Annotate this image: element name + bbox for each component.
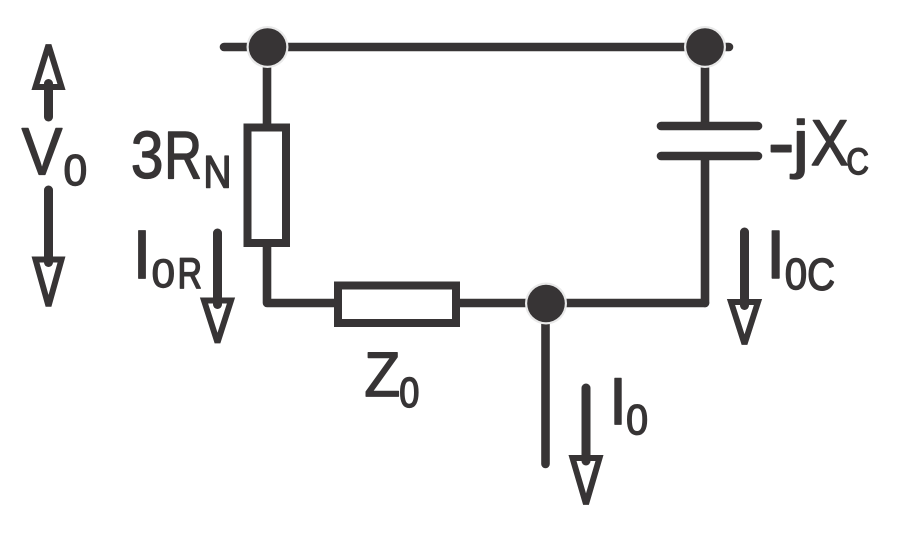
label jXC xyxy=(771,119,867,179)
resistor 3RN body xyxy=(248,128,287,244)
arrow I0 down (head) xyxy=(573,458,600,504)
label Z0 xyxy=(366,353,418,408)
wire right vertical lower (corner up to capacitor) xyxy=(701,158,710,303)
arrow V0 up (shaft) xyxy=(44,84,53,118)
capacitor C top plate xyxy=(661,122,758,131)
arrow I0C down (shaft) xyxy=(740,232,749,306)
arrow V0 down (shaft) xyxy=(44,190,53,263)
wire stub below middle node xyxy=(541,306,550,464)
label I0R xyxy=(139,231,201,288)
wire top horizontal xyxy=(224,43,729,52)
node middle bottom xyxy=(525,283,567,325)
arrow V0 down (head) xyxy=(36,260,62,307)
label 3RN xyxy=(133,131,228,187)
arrow V0 up (head) xyxy=(36,45,62,87)
wire left vertical upper xyxy=(263,47,272,125)
label I0 xyxy=(615,379,647,435)
arrow I0R down (shaft) xyxy=(213,233,222,305)
node top-left xyxy=(247,26,289,68)
resistor Z0 body xyxy=(338,286,456,324)
wire bottom horizontal (Z0 to right corner) xyxy=(458,299,705,308)
arrow I0C down (head) xyxy=(731,302,758,344)
capacitor C bottom plate xyxy=(661,152,758,161)
node top-right xyxy=(684,26,726,68)
arrow I0R down (head) xyxy=(204,301,231,343)
wire right vertical upper (node to capacitor top plate) xyxy=(701,47,710,124)
label V0 xyxy=(22,129,86,186)
arrow I0 down (shaft) xyxy=(582,388,591,461)
label I0C xyxy=(772,231,833,290)
wire left vertical lower with corner to bottom xyxy=(267,245,336,303)
